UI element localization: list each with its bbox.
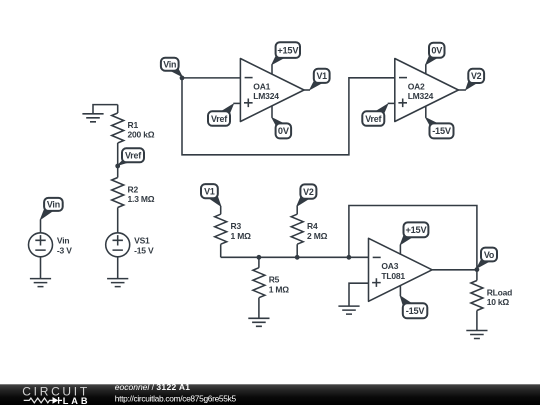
wire Vref stub to OA1 + input	[233, 102, 240, 104]
wire Vin source to ground	[40, 257, 42, 279]
svg-text:eoconnel / 3122 A1: eoconnel / 3122 A1	[115, 382, 191, 392]
node Vref junction dot	[115, 164, 120, 169]
ground below Vin	[30, 279, 51, 287]
svg-text:-15V: -15V	[406, 306, 426, 316]
svg-text:Vin: Vin	[163, 60, 176, 70]
junction dot Vin net	[180, 76, 185, 81]
ground at OA3 + input	[338, 306, 359, 314]
svg-text:Vo: Vo	[484, 250, 495, 260]
svg-text:LAB: LAB	[63, 396, 91, 405]
svg-text:10 kΩ: 10 kΩ	[487, 297, 510, 307]
power label +15V (OA3)	[400, 222, 428, 244]
node label Vin (OA1)	[161, 58, 182, 77]
wire summing bus to OA3 inverting input	[221, 256, 369, 258]
svg-text:Vin: Vin	[57, 236, 69, 246]
svg-text:+15V: +15V	[277, 45, 299, 55]
svg-text:LM324: LM324	[408, 91, 434, 101]
wire Vin to OA1 inverting input	[182, 77, 240, 79]
resistor RLoad	[471, 270, 512, 331]
resistor R1	[112, 105, 155, 178]
svg-text:TL081: TL081	[381, 271, 405, 281]
node label V2 (R4 top)	[297, 184, 317, 206]
node label V2 (OA2 output)	[466, 69, 484, 90]
node label Vin (at source)	[41, 198, 63, 220]
svg-text:V2: V2	[471, 71, 482, 81]
resistor R4	[291, 206, 327, 257]
svg-text:0V: 0V	[431, 46, 443, 56]
svg-text:R4: R4	[307, 221, 318, 231]
svg-text:-15V: -15V	[432, 126, 452, 136]
wire OA1 +V pin	[271, 64, 273, 74]
wire ground to R1 top	[93, 105, 118, 114]
svg-text:-3 V: -3 V	[57, 245, 72, 255]
svg-text:OA1: OA1	[253, 81, 270, 91]
svg-text:R5: R5	[269, 275, 280, 285]
node label Vref (OA1)	[208, 104, 233, 126]
wire Vin label to source	[40, 219, 42, 232]
wire Vin net to OA2 inverting input	[182, 78, 395, 155]
resistor R2	[112, 178, 155, 233]
svg-text:Vref: Vref	[365, 114, 381, 124]
op-amp OA2 LM324	[395, 59, 459, 122]
svg-text:LM324: LM324	[253, 91, 279, 101]
svg-text:0V: 0V	[278, 126, 290, 136]
wire feedback OA3 output to bus	[349, 206, 477, 270]
resistor R3	[215, 206, 251, 257]
wire OA1 output stub	[304, 89, 310, 91]
ground below RLoad	[466, 331, 487, 339]
voltage source Vin -3V	[29, 233, 73, 257]
ground below VS1	[107, 279, 128, 287]
power label -15V (OA2)	[426, 118, 454, 139]
svg-text:2 MΩ: 2 MΩ	[307, 231, 328, 241]
svg-text:V2: V2	[303, 187, 314, 197]
svg-text:Vref: Vref	[211, 114, 227, 124]
power label +15V (OA1)	[272, 42, 300, 64]
wire OA2 output stub	[458, 89, 466, 91]
wire Vref stub to OA2 + input	[388, 102, 395, 104]
power label 0V (OA2)	[426, 43, 445, 65]
op-amp OA1 LM324	[240, 59, 304, 122]
wire OA1 -V pin	[271, 106, 273, 118]
junction dot R5/bus	[257, 255, 262, 260]
svg-text:VS1: VS1	[134, 236, 150, 246]
svg-text:RLoad: RLoad	[487, 287, 512, 297]
svg-text:R3: R3	[231, 221, 242, 231]
node label Vref (OA2)	[362, 104, 387, 126]
op-amp OA3 TL081	[369, 238, 433, 301]
resistor R5	[253, 257, 289, 318]
power label -15V (OA3)	[400, 296, 427, 318]
wire OA2 -V pin	[425, 106, 427, 118]
node label V1 (OA1 output)	[310, 69, 330, 90]
svg-text:1 MΩ: 1 MΩ	[269, 284, 290, 294]
svg-text:Vref: Vref	[125, 151, 141, 161]
ground below R5	[248, 318, 269, 326]
svg-text:1.3 MΩ: 1.3 MΩ	[128, 194, 155, 204]
svg-text:http://circuitlab.com/ce875g6r: http://circuitlab.com/ce875g6re55k5	[115, 393, 237, 403]
power label 0V (OA1)	[272, 118, 291, 139]
wire OA2 +V pin	[425, 64, 427, 74]
svg-text:1 MΩ: 1 MΩ	[231, 231, 252, 241]
svg-text:Vin: Vin	[47, 200, 60, 210]
svg-text:+15V: +15V	[405, 225, 427, 235]
node label Vo	[477, 248, 497, 268]
wire OA3 + input to ground	[349, 283, 369, 306]
svg-text:V1: V1	[204, 186, 215, 196]
svg-text:R2: R2	[128, 184, 139, 194]
svg-text:OA3: OA3	[381, 261, 398, 271]
junction dot feedback/bus	[347, 255, 352, 260]
wire OA3 +V pin	[399, 245, 401, 255]
svg-text:-15 V: -15 V	[134, 245, 154, 255]
svg-text:V1: V1	[316, 71, 327, 81]
logo diode glyph	[53, 397, 59, 404]
node label Vref (R1/R2 junction)	[118, 148, 144, 165]
ground G1 (top of R1 chain)	[82, 114, 103, 122]
voltage source VS1 -15V	[106, 233, 154, 257]
junction dot OA3 output node Vo	[475, 267, 480, 272]
logo resistor glyph	[24, 398, 53, 403]
svg-text:R1: R1	[128, 120, 139, 130]
junction dot R4/bus	[295, 255, 300, 260]
svg-text:OA2: OA2	[408, 81, 425, 91]
wire VS1 to ground	[117, 257, 119, 279]
wire OA3 output	[432, 269, 477, 271]
footer bar	[0, 380, 540, 405]
wire OA3 -V pin	[399, 285, 401, 296]
node label V1 (R3 top)	[201, 184, 221, 206]
svg-text:200 kΩ: 200 kΩ	[128, 130, 155, 140]
